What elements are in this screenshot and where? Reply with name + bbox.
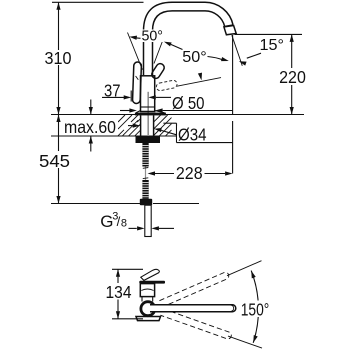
svg-text:150°: 150°: [241, 299, 270, 319]
svg-text:8: 8: [121, 218, 127, 230]
svg-text:15°: 15°: [260, 37, 285, 54]
svg-text:max.60: max.60: [64, 117, 116, 137]
svg-text:545: 545: [39, 151, 70, 171]
svg-text:134: 134: [106, 282, 132, 302]
svg-text:37: 37: [104, 80, 121, 100]
svg-text:50°: 50°: [142, 28, 164, 45]
svg-text:220: 220: [279, 67, 306, 87]
svg-text:Ø 50: Ø 50: [172, 93, 205, 113]
svg-text:310: 310: [45, 48, 72, 68]
svg-text:50°: 50°: [182, 49, 207, 66]
svg-text:228: 228: [176, 163, 203, 183]
svg-text:Ø34: Ø34: [178, 124, 207, 144]
